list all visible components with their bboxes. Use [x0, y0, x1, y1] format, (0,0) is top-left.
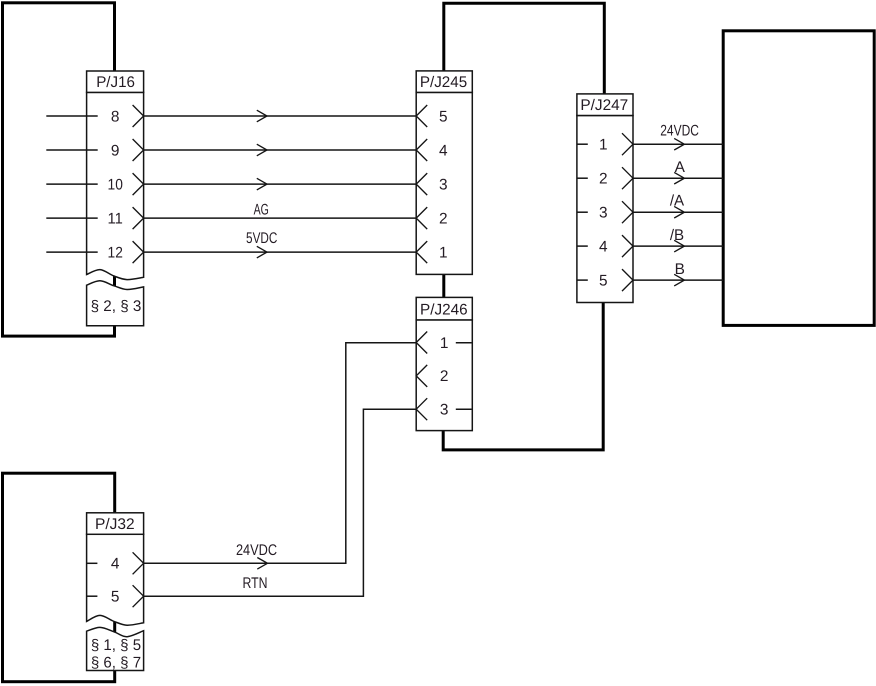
- svg-text:10: 10: [108, 176, 123, 193]
- wire 24VDC P/J32 pin 4 to P/J246 pin 1: [144, 343, 417, 564]
- connector P/J247 body: [577, 116, 633, 303]
- wire P/J16 pin 10 to P/J245: [144, 183, 417, 185]
- svg-text:4: 4: [599, 238, 608, 255]
- svg-text:5: 5: [439, 108, 448, 125]
- wire P/J247 pin 2 to right block: [633, 177, 723, 179]
- pin chevron P/J16 pin 8: [133, 105, 144, 127]
- pin chevron P/J16 pin 12: [133, 241, 144, 263]
- wire P/J16 pin 12 to P/J245: [144, 251, 417, 253]
- connector P/J246 title box: [416, 297, 472, 320]
- arrowhead on wire P/J16 pin 8: [257, 110, 267, 122]
- pin chevron P/J247 pin 5: [622, 269, 633, 291]
- svg-text:AG: AG: [254, 201, 269, 218]
- svg-text:4: 4: [111, 556, 120, 573]
- svg-text:2: 2: [439, 210, 448, 227]
- pin chevron P/J245 pin 1: [416, 241, 427, 263]
- arrowhead on wire P/J16 pin 10: [257, 178, 267, 190]
- connector P/J16 section box: [87, 281, 144, 326]
- pin dash P/J32 pin 5: [87, 595, 98, 597]
- svg-text:12: 12: [108, 244, 123, 261]
- svg-text:P/J246: P/J246: [420, 302, 468, 319]
- svg-text:11: 11: [108, 210, 123, 227]
- pin chevron P/J245 pin 4: [416, 139, 427, 161]
- svg-text:3: 3: [440, 402, 449, 419]
- wire stub into P/J16 pin 9: [46, 149, 97, 151]
- connector P/J245 body: [416, 92, 472, 274]
- connector P/J246 body: [416, 320, 472, 431]
- wire P/J247 pin 5 to right block: [633, 279, 723, 281]
- pin dash P/J246 pin 3: [456, 408, 472, 410]
- pin chevron P/J16 pin 9: [133, 139, 144, 161]
- pin chevron P/J247 pin 2: [622, 167, 633, 189]
- svg-text:8: 8: [111, 108, 120, 125]
- pin chevron P/J247 pin 3: [622, 201, 633, 223]
- pin dash P/J246 pin 1: [456, 342, 472, 344]
- svg-text:1: 1: [599, 137, 608, 154]
- svg-text:P/J32: P/J32: [95, 516, 135, 533]
- wire P/J246 bottom to P/J247 bottom: [443, 303, 603, 450]
- wire RTN P/J32 pin 5 to P/J246 pin 3: [144, 409, 417, 596]
- connector P/J16 body: [87, 92, 144, 279]
- wire P/J16 pin 8 to P/J245: [144, 115, 417, 117]
- svg-text:B: B: [675, 261, 685, 278]
- svg-text:§ 6, § 7: § 6, § 7: [91, 654, 141, 671]
- pin dash P/J247 pin 4: [577, 245, 588, 247]
- wire P/J247 pin 1 to right block: [633, 143, 723, 145]
- pin chevron P/J246 pin 1: [416, 332, 427, 354]
- arrowhead on wire P/J16 pin 12: [257, 246, 267, 258]
- arrowhead on wire P/J247 pin 1: [674, 138, 684, 150]
- pin dash P/J247 pin 1: [577, 143, 588, 145]
- connector P/J32 section box: [87, 627, 144, 670]
- wire stub into P/J16 pin 10: [46, 183, 97, 185]
- pin chevron P/J245 pin 2: [416, 207, 427, 229]
- svg-text:P/J245: P/J245: [420, 74, 467, 91]
- svg-text:9: 9: [111, 142, 120, 159]
- wire P/J245 top to P/J247 top: [444, 3, 605, 94]
- pin chevron P/J247 pin 4: [622, 235, 633, 257]
- wire P/J247 pin 4 to right block: [633, 245, 723, 247]
- svg-text:1: 1: [439, 244, 448, 261]
- svg-text:5: 5: [599, 272, 608, 289]
- pin chevron P/J32 pin 4: [133, 552, 144, 574]
- svg-text:§ 2, § 3: § 2, § 3: [91, 298, 142, 315]
- pin dash P/J247 pin 3: [577, 211, 588, 213]
- block right: [723, 31, 874, 326]
- svg-text:2: 2: [599, 171, 608, 188]
- svg-text:P/J16: P/J16: [96, 74, 135, 91]
- svg-text:4: 4: [439, 142, 448, 159]
- pin chevron P/J245 pin 3: [416, 173, 427, 195]
- pin chevron P/J16 pin 11: [133, 207, 144, 229]
- arrowhead on wire P/J247 pin 4: [674, 240, 684, 252]
- arrowhead on wire P/J16 pin 9: [257, 144, 267, 156]
- wire P/J16 pin 11 to P/J245: [144, 217, 417, 219]
- wire P/J247 pin 3 to right block: [633, 211, 723, 213]
- svg-text:RTN: RTN: [243, 575, 268, 592]
- wire stub into P/J16 pin 12: [46, 251, 97, 253]
- block bottom-left: [3, 473, 115, 682]
- svg-text:§ 1, § 5: § 1, § 5: [91, 637, 141, 654]
- svg-text:1: 1: [440, 335, 449, 352]
- wire P/J16 pin 9 to P/J245: [144, 149, 417, 151]
- svg-text:/A: /A: [670, 193, 685, 210]
- connector P/J32 title box: [87, 513, 144, 535]
- connector P/J32 body: [87, 534, 144, 625]
- svg-text:5: 5: [111, 589, 120, 606]
- svg-text:3: 3: [439, 176, 448, 193]
- svg-text:5VDC: 5VDC: [246, 230, 277, 247]
- arrowhead on wire P/J247 pin 2: [674, 172, 684, 184]
- arrowhead on wire P/J247 pin 3: [674, 206, 684, 218]
- pin chevron P/J245 pin 5: [416, 105, 427, 127]
- svg-text:/B: /B: [670, 227, 684, 244]
- connector P/J247 title box: [577, 94, 633, 116]
- connector P/J16 title box: [87, 71, 144, 92]
- pin dash P/J32 pin 4: [87, 562, 98, 564]
- pin chevron P/J247 pin 1: [622, 133, 633, 155]
- pin chevron P/J246 pin 2: [416, 365, 427, 387]
- svg-text:A: A: [675, 159, 686, 176]
- arrowhead on 24VDC wire: [257, 558, 267, 570]
- svg-text:2: 2: [440, 368, 449, 385]
- pin dash P/J247 pin 2: [577, 177, 588, 179]
- svg-text:P/J247: P/J247: [580, 97, 628, 114]
- connector P/J245 title box: [416, 71, 472, 93]
- wire stub into P/J16 pin 8: [46, 115, 97, 117]
- svg-text:24VDC: 24VDC: [236, 542, 277, 559]
- svg-text:24VDC: 24VDC: [660, 123, 699, 140]
- pin chevron P/J246 pin 3: [416, 398, 427, 420]
- wire stub into P/J16 pin 11: [46, 217, 97, 219]
- svg-text:3: 3: [599, 205, 608, 222]
- pin chevron P/J16 pin 10: [133, 173, 144, 195]
- pin chevron P/J32 pin 5: [133, 585, 144, 607]
- wire P/J245 bottom to P/J246 top: [442, 273, 445, 299]
- pin dash P/J247 pin 5: [577, 279, 588, 281]
- block top-left: [3, 3, 115, 336]
- arrowhead on wire P/J247 pin 5: [674, 274, 684, 286]
